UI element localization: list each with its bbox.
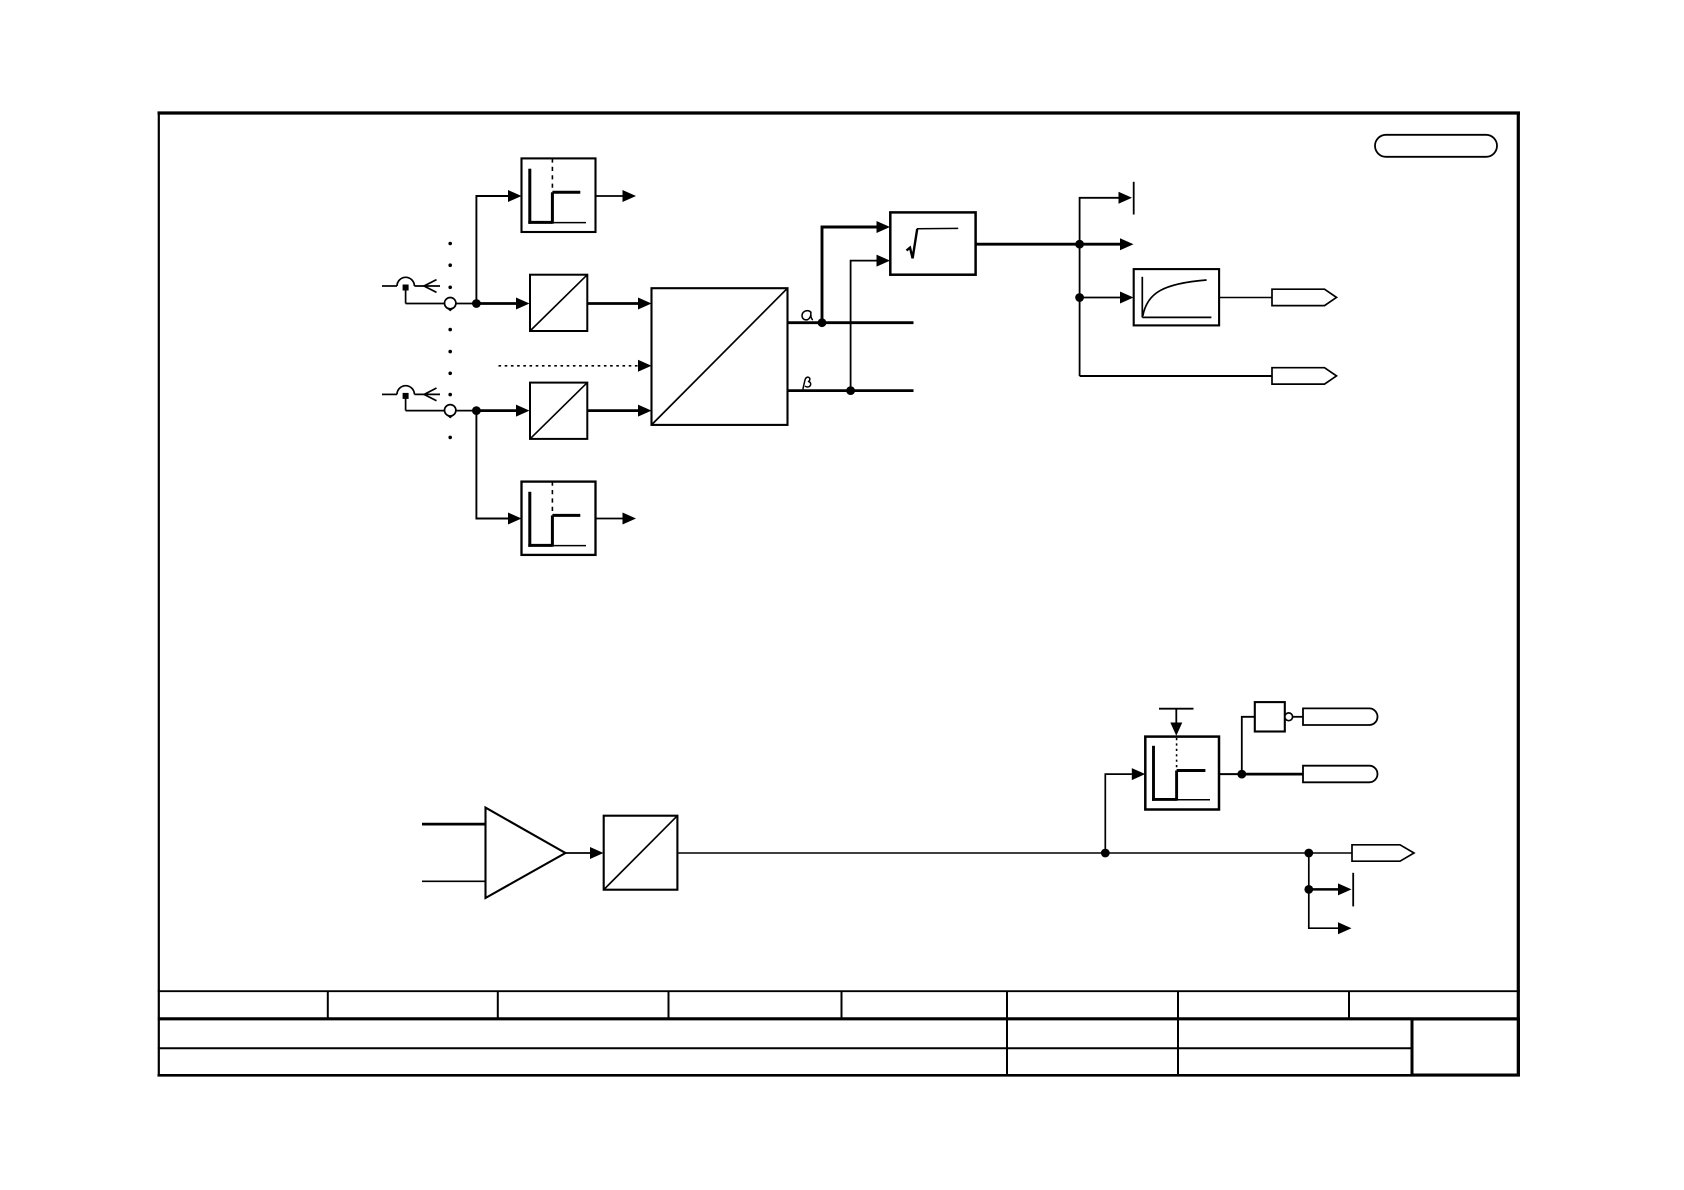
title block column divider 1	[327, 991, 329, 1019]
junction dot J6	[1304, 885, 1313, 894]
limiter block B1	[522, 158, 596, 232]
title block column divider 4	[841, 991, 843, 1019]
B2 output arrow	[596, 518, 623, 520]
limiter block B3	[1145, 737, 1219, 810]
threshold arrow into B3	[1175, 709, 1177, 723]
limiter B1 characteristic	[528, 169, 580, 224]
wire P2 to converter block	[587, 409, 638, 412]
wire bubble to K3	[1293, 716, 1303, 718]
coordinate converter block U1	[652, 288, 788, 425]
threshold bar above B3	[1159, 708, 1194, 710]
branch down from sqrt output	[1079, 244, 1081, 376]
limiter B2 characteristic	[528, 492, 580, 547]
filter block U3	[1134, 269, 1219, 325]
title block column divider 2	[497, 991, 499, 1019]
page id pill top right	[1375, 135, 1497, 157]
interface circle node 2	[445, 405, 456, 416]
title block thick cell box	[1412, 1019, 1519, 1075]
junction dot J3	[1101, 849, 1110, 858]
wire to filter block	[1080, 297, 1120, 299]
alpha junction dot	[818, 318, 827, 327]
junction dot on sqrt output	[1075, 240, 1084, 249]
inverter bubble	[1285, 713, 1293, 721]
output connector K5	[1352, 845, 1414, 861]
title block column divider 5	[1006, 991, 1008, 1075]
junction dot filter input	[1075, 293, 1084, 302]
sheet connector bar bottom	[1352, 873, 1354, 907]
sqrt output wire	[976, 243, 1120, 246]
output connector K1	[1272, 289, 1337, 305]
wire alpha to sqrt upper input	[822, 227, 877, 323]
wire J4 down	[1308, 853, 1310, 889]
interface circle node 1	[445, 298, 456, 309]
wire J6 to sheet connector	[1309, 888, 1338, 891]
frame left border	[158, 112, 160, 1077]
wire J5 to status connector K4	[1242, 773, 1303, 776]
wire circle2 to junction	[456, 410, 477, 412]
scaling block P3	[604, 816, 678, 890]
wire J2 to scaling block P2	[476, 409, 516, 412]
branch up to sheet connector	[1080, 198, 1119, 244]
current transformer T1 dot	[403, 285, 409, 291]
status connector K3	[1303, 708, 1377, 725]
current transformer T2 dot	[403, 393, 409, 399]
amplifier triangle V1	[486, 808, 566, 898]
wire J1 up to limiter B1	[476, 196, 508, 304]
title block thick separator line	[158, 1017, 1520, 1020]
sqrt glyph	[907, 229, 918, 258]
frame top border	[158, 111, 1521, 114]
frame bottom border	[158, 1074, 1520, 1077]
junction dot J5	[1237, 770, 1246, 779]
frame right border	[1517, 112, 1520, 1077]
wire J3 up to limiter B3	[1105, 774, 1132, 853]
B3 output wire	[1219, 773, 1242, 775]
wire P1 to converter block	[587, 302, 638, 305]
beta junction dot	[846, 386, 855, 395]
interface boundary dot column	[448, 242, 452, 440]
inverter box N1	[1255, 702, 1285, 731]
B1 output arrow	[596, 195, 623, 197]
limiter B3 characteristic	[1152, 746, 1205, 801]
sheet connector bar top	[1133, 182, 1135, 215]
scaling block P1	[530, 275, 587, 331]
filter output wire	[1219, 297, 1272, 299]
title block column divider 6	[1177, 991, 1179, 1075]
dashed parameter wire into converter	[499, 365, 639, 367]
wire circle1 to junction	[456, 303, 477, 305]
wire J1 to scaling block P1	[476, 302, 516, 305]
wire J6 down to arrow	[1309, 889, 1338, 928]
junction node J2	[472, 406, 481, 415]
wire J5 up to inverter	[1242, 717, 1255, 774]
amplifier output wire	[565, 852, 590, 854]
sqrt block U2	[890, 212, 975, 274]
long output wire	[677, 852, 1352, 854]
title block top line	[158, 990, 1520, 992]
junction node J1	[472, 299, 481, 308]
title block column divider 7	[1348, 991, 1350, 1019]
title block middle line	[158, 1047, 1412, 1049]
filter characteristic	[1141, 277, 1143, 318]
junction dot J4	[1304, 849, 1313, 858]
output connector K2	[1272, 368, 1337, 384]
limiter block B2	[522, 482, 596, 555]
wire to output connector K2	[1080, 375, 1272, 377]
status connector K4	[1303, 766, 1377, 783]
wire beta to sqrt lower input	[851, 261, 877, 391]
current transformer input T2	[382, 386, 445, 411]
wire J2 down to limiter B2	[476, 411, 508, 519]
current transformer input T1	[382, 277, 445, 303]
scaling block P2	[530, 383, 587, 439]
alpha output wire	[788, 321, 914, 324]
label alpha	[802, 311, 812, 320]
lower amplifier input wire 2	[422, 880, 486, 882]
lower amplifier input wire 1	[422, 823, 486, 826]
label beta	[803, 377, 811, 389]
title block column divider 3	[668, 991, 670, 1019]
beta output wire	[788, 389, 914, 392]
